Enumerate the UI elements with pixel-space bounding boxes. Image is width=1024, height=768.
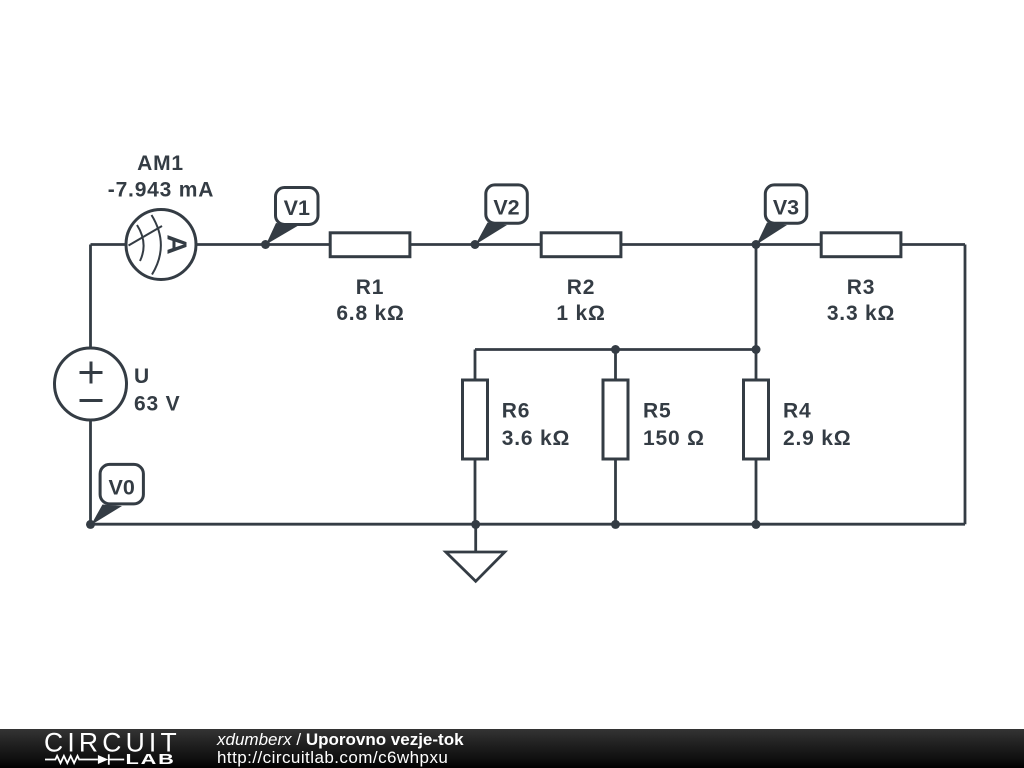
svg-text:V2: V2 bbox=[493, 196, 519, 220]
svg-text:AM1: AM1 bbox=[137, 152, 184, 175]
footer author/title bbox=[217, 730, 464, 750]
resistor R3 bbox=[821, 233, 901, 257]
svg-text:-7.943 mA: -7.943 mA bbox=[108, 179, 214, 202]
svg-text:63 V: 63 V bbox=[134, 393, 180, 416]
wire R5 branch bbox=[614, 350, 617, 525]
svg-text:3.6 kΩ: 3.6 kΩ bbox=[502, 427, 570, 450]
ground bbox=[446, 552, 505, 581]
footer bar bbox=[0, 729, 1024, 768]
footer url bbox=[217, 748, 448, 768]
svg-text:R1: R1 bbox=[356, 276, 384, 299]
wire R4 branch bbox=[755, 350, 758, 525]
svg-text:R5: R5 bbox=[643, 400, 671, 423]
callout V0 bbox=[91, 464, 143, 525]
resistor R4 bbox=[744, 380, 769, 459]
node V2 dot bbox=[471, 240, 480, 249]
svg-text:150 Ω: 150 Ω bbox=[643, 427, 705, 450]
svg-text:R6: R6 bbox=[502, 400, 530, 423]
svg-text:R3: R3 bbox=[847, 276, 875, 299]
junction middle R5 bbox=[611, 345, 620, 354]
svg-text:U: U bbox=[134, 365, 150, 388]
node V0 dot bbox=[86, 520, 95, 529]
ammeter AM1 bbox=[126, 210, 196, 280]
svg-text:R4: R4 bbox=[783, 400, 811, 423]
svg-text:A: A bbox=[162, 234, 193, 254]
junction bottom R4 bbox=[752, 520, 761, 529]
node V3 dot bbox=[752, 240, 761, 249]
junction bottom ground bbox=[471, 520, 480, 529]
svg-text:V1: V1 bbox=[284, 196, 310, 220]
callout V3 bbox=[757, 185, 807, 245]
wire bottom rail bbox=[91, 523, 966, 526]
svg-text:2.9 kΩ: 2.9 kΩ bbox=[783, 427, 851, 450]
resistor R2 bbox=[541, 233, 621, 257]
wire R6 branch bbox=[474, 350, 477, 525]
wire node V3 down to middle rail bbox=[755, 245, 758, 350]
svg-text:3.3 kΩ: 3.3 kΩ bbox=[827, 302, 895, 325]
resistor R5 bbox=[603, 380, 628, 459]
junction bottom R5 bbox=[611, 520, 620, 529]
svg-text:R2: R2 bbox=[567, 276, 595, 299]
wire ground stem bbox=[474, 524, 477, 553]
svg-text:V0: V0 bbox=[109, 476, 135, 500]
wire top rail bbox=[91, 243, 966, 246]
wire left branch through source U bbox=[89, 245, 92, 525]
svg-text:V3: V3 bbox=[773, 196, 799, 220]
svg-text:6.8 kΩ: 6.8 kΩ bbox=[336, 302, 404, 325]
node V1 dot bbox=[261, 240, 270, 249]
wire right side bbox=[964, 245, 967, 525]
voltage source U bbox=[55, 348, 127, 420]
svg-text:1 kΩ: 1 kΩ bbox=[556, 302, 605, 325]
wire middle rail bbox=[475, 348, 756, 351]
callout V2 bbox=[476, 185, 528, 245]
resistor R6 bbox=[463, 380, 488, 459]
resistor R1 bbox=[330, 233, 410, 257]
callout V1 bbox=[266, 188, 318, 245]
junction middle R4 bbox=[752, 345, 761, 354]
